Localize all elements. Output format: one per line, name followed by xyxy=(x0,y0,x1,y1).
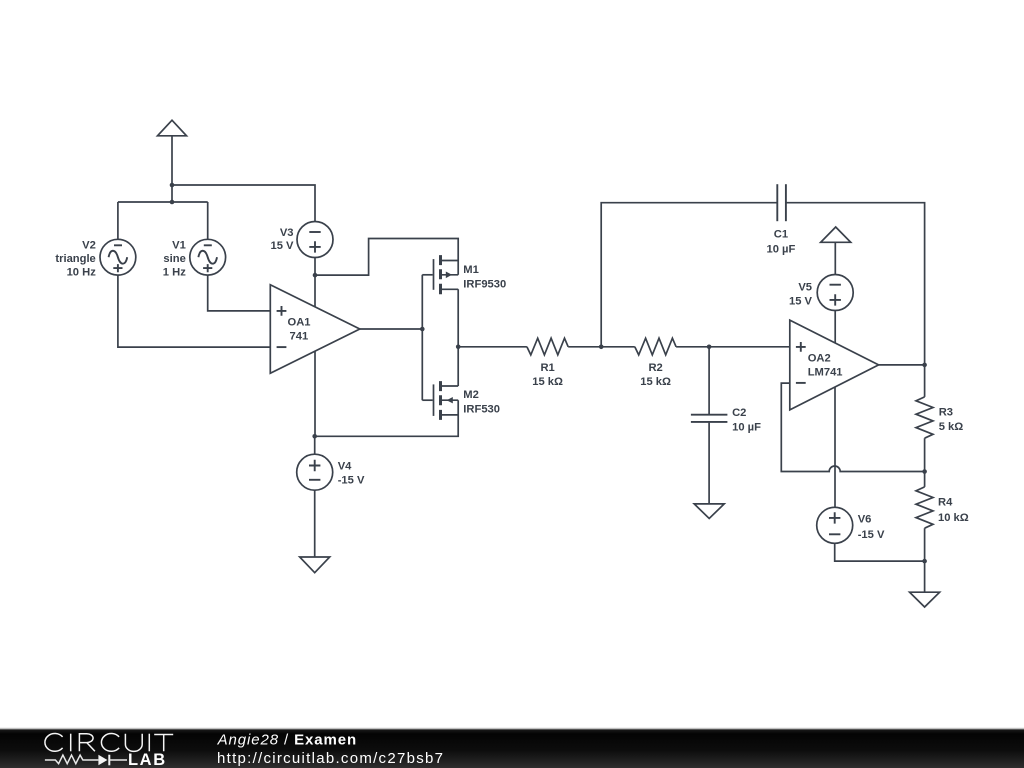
svg-text:C2: C2 xyxy=(732,407,746,419)
wire OA2 minus feedback with hop xyxy=(781,383,924,471)
capacitor C1 10 uF xyxy=(766,184,795,255)
svg-text:IRF9530: IRF9530 xyxy=(463,278,506,290)
op-amp OA2 LM741 xyxy=(790,320,879,410)
wire R1 to R2 xyxy=(568,346,635,348)
svg-text:R4: R4 xyxy=(938,497,953,509)
svg-text:741: 741 xyxy=(290,331,309,343)
wire V2 bottom to OA1 minus xyxy=(118,275,270,347)
wire OA2 V- down xyxy=(834,387,836,507)
logo resistor-diode xyxy=(45,755,99,764)
node junction VCC/V2V1 xyxy=(170,200,175,205)
node junction output node xyxy=(456,345,461,350)
wire V5 to OA2 V+ xyxy=(834,311,836,344)
op-amp OA1 741 xyxy=(270,285,360,373)
svg-text:1 Hz: 1 Hz xyxy=(163,266,186,278)
source V2 triangle 10 Hz xyxy=(55,239,135,278)
power flag VCC right xyxy=(821,227,851,275)
node junction R1/R2/C1 xyxy=(599,345,604,350)
ground under V4 xyxy=(300,557,330,573)
svg-text:10 kΩ: 10 kΩ xyxy=(938,512,969,524)
svg-text:http://circuitlab.com/c27bsb7: http://circuitlab.com/c27bsb7 xyxy=(217,750,444,767)
svg-text:V1: V1 xyxy=(172,240,186,252)
transistor M1 IRF9530 xyxy=(422,255,506,294)
node junction feedback/R3/R4 xyxy=(922,469,927,474)
svg-text:triangle: triangle xyxy=(55,253,95,265)
svg-text:OA2: OA2 xyxy=(808,353,831,365)
wire V1 top xyxy=(207,202,209,239)
wire V5 top stem xyxy=(834,242,836,274)
svg-text:V3: V3 xyxy=(280,227,294,239)
wire C1 feedback left leg xyxy=(601,203,777,347)
power flag VCC top-left xyxy=(158,120,187,202)
node junction V4 top xyxy=(312,434,317,439)
node junction V6/R4 xyxy=(922,559,927,564)
node junction VCC/V3 xyxy=(170,183,175,188)
wire M1 drain to M2 drain xyxy=(457,289,459,386)
svg-text:R1: R1 xyxy=(540,362,554,374)
node junction R2/C2 xyxy=(707,345,712,350)
svg-text:V6: V6 xyxy=(858,514,872,526)
svg-text:sine: sine xyxy=(163,253,185,265)
svg-text:R3: R3 xyxy=(939,407,953,419)
resistor R4 10 kOhm xyxy=(916,487,969,528)
svg-text:15 kΩ: 15 kΩ xyxy=(532,376,563,388)
svg-text:R2: R2 xyxy=(648,362,662,374)
ground right xyxy=(910,592,940,607)
svg-text:10 µF: 10 µF xyxy=(732,421,761,433)
svg-text:V4: V4 xyxy=(338,460,352,472)
svg-text:Angie28 / Examen: Angie28 / Examen xyxy=(217,731,358,748)
wire V3 bottom to OA1 V+ xyxy=(314,258,316,307)
svg-text:10 µF: 10 µF xyxy=(766,243,795,255)
wire V1 bottom to OA1 plus xyxy=(208,275,271,311)
svg-text:15 V: 15 V xyxy=(270,240,294,252)
wire M1 source rail xyxy=(457,261,459,275)
node junction V3-bottom xyxy=(313,273,318,278)
source V5 15 V xyxy=(789,275,853,311)
capacitor C2 10 uF xyxy=(691,407,761,433)
resistor R2 15 kOhm xyxy=(635,338,676,388)
svg-text:10 Hz: 10 Hz xyxy=(67,266,97,278)
svg-text:5 kΩ: 5 kΩ xyxy=(939,421,964,433)
wire C1 feedback right leg xyxy=(786,203,925,365)
ground under C2 xyxy=(694,504,724,519)
wire V2/V1 top rail xyxy=(118,201,208,203)
svg-text:C1: C1 xyxy=(774,229,788,241)
wire V6 bottom xyxy=(835,543,925,561)
logo CIRCUIT xyxy=(45,734,173,752)
wire V4 bottom xyxy=(314,490,316,557)
source V1 sine 1 Hz xyxy=(163,239,226,278)
wire V3 junction to M1 top rail xyxy=(315,239,458,276)
svg-text:15 kΩ: 15 kΩ xyxy=(640,376,671,388)
wire V4 top stem xyxy=(314,436,316,454)
svg-text:-15 V: -15 V xyxy=(338,474,365,486)
svg-text:V5: V5 xyxy=(798,281,812,293)
svg-text:M2: M2 xyxy=(463,389,479,401)
svg-text:LAB: LAB xyxy=(128,751,167,768)
wire R3 to R4 xyxy=(924,438,926,487)
node junction output/gate bus xyxy=(420,327,425,332)
svg-text:-15 V: -15 V xyxy=(858,529,885,541)
svg-text:LM741: LM741 xyxy=(808,367,843,379)
svg-text:OA1: OA1 xyxy=(288,317,311,329)
transistor M2 IRF530 xyxy=(422,381,500,420)
wire VCC stem xyxy=(171,136,173,202)
wire OA2 output xyxy=(879,364,925,366)
wire output to R3 xyxy=(924,365,926,397)
wire R4 to ground xyxy=(924,528,926,592)
wire VCC to V3 xyxy=(172,185,315,222)
svg-text:IRF530: IRF530 xyxy=(463,403,500,415)
resistor R3 5 kOhm xyxy=(916,397,963,438)
source V6 -15 V xyxy=(817,507,885,543)
wire gate bus xyxy=(421,275,423,400)
wire M2 source rail down xyxy=(315,400,459,436)
wire C2 bottom stem xyxy=(708,423,710,504)
wire V2 top xyxy=(117,202,119,239)
wire OA1 output to gate bus xyxy=(360,328,423,330)
node junction OA2 output xyxy=(922,363,927,368)
wire output node to R1 xyxy=(458,346,527,348)
svg-text:15 V: 15 V xyxy=(789,295,813,307)
source V4 -15 V xyxy=(297,454,365,490)
wire OA1 V- down xyxy=(314,351,316,436)
resistor R1 15 kOhm xyxy=(527,338,568,388)
wire R2 to OA2 plus xyxy=(676,346,790,348)
source V3 15 V xyxy=(270,222,333,258)
svg-text:M1: M1 xyxy=(463,264,479,276)
svg-text:V2: V2 xyxy=(82,240,96,252)
wire C2 top stem xyxy=(708,347,710,414)
FOOTER xyxy=(0,728,1024,768)
